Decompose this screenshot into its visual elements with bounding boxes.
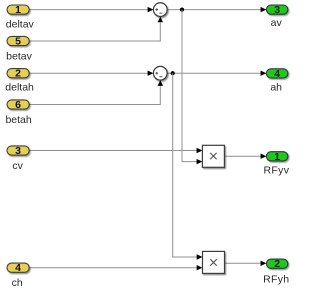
svg-text:1: 1 [274, 151, 280, 163]
svg-text:3: 3 [15, 145, 21, 157]
wire Product1 output to RFyv [225, 155, 261, 157]
junction node after Sum1 [180, 8, 184, 12]
svg-text:4: 4 [15, 262, 21, 274]
svg-text:RFyh: RFyh [263, 273, 289, 285]
outport 1 RFyv [264, 151, 290, 177]
svg-text:betav: betav [6, 50, 32, 62]
wire cv to Product1 upper input [29, 150, 197, 152]
wire betav to Sum1 bottom input [29, 23, 160, 41]
product block Product2 [203, 251, 225, 273]
svg-text:deltah: deltah [5, 81, 34, 93]
svg-text:2: 2 [274, 258, 280, 270]
svg-text:RFyv: RFyv [264, 165, 290, 177]
svg-text:4: 4 [274, 68, 280, 80]
product block Product1 [202, 145, 224, 167]
outport 3 av [266, 4, 288, 29]
inport 1 deltav [6, 4, 35, 30]
svg-text:1: 1 [15, 4, 21, 16]
svg-text:3: 3 [274, 4, 280, 16]
inport 4 ch [7, 262, 29, 289]
outport 4 ah [266, 68, 288, 94]
svg-text:deltav: deltav [6, 18, 35, 30]
wire branch av to Product1 lower input [182, 10, 197, 162]
wire betah to Sum2 bottom input [29, 86, 160, 104]
inport 3 cv [7, 145, 29, 172]
svg-text:5: 5 [15, 36, 21, 48]
wire Sum1 output to av [167, 9, 261, 11]
wire Product2 output to RFyh [225, 262, 261, 264]
wire deltav to Sum1 [29, 9, 148, 11]
sum block Sum2 [153, 66, 167, 80]
wire deltah to Sum2 [29, 72, 148, 74]
wire Sum2 output to ah [167, 72, 261, 74]
svg-text:av: av [271, 17, 283, 29]
outport 2 RFyh [263, 258, 289, 285]
inport 6 betah [5, 99, 31, 126]
junction node after Sum2 [171, 71, 175, 75]
inport 2 deltah [5, 68, 34, 94]
svg-text:ch: ch [12, 277, 23, 289]
svg-text:6: 6 [15, 99, 21, 111]
wire ch to Product2 lower input [29, 267, 197, 269]
svg-text:betah: betah [5, 114, 31, 126]
wire branch ah to Product2 upper input [173, 73, 198, 257]
svg-text:ah: ah [270, 82, 282, 94]
inport 5 betav [6, 36, 32, 63]
svg-text:cv: cv [12, 160, 23, 172]
sum block Sum1 [153, 3, 167, 17]
svg-text:2: 2 [15, 68, 21, 80]
